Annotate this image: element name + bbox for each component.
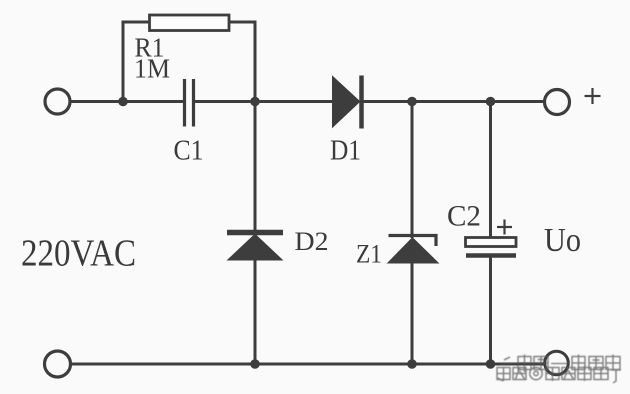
wire top rail: C1 right plate to D1 anode xyxy=(195,100,333,103)
diode D2 triangle xyxy=(229,235,281,260)
terminal output top-right xyxy=(545,90,570,115)
wire Z1 branch lower xyxy=(411,263,414,365)
plus sign C2 polarity xyxy=(497,220,512,235)
node junction bottom rail at C2 xyxy=(486,359,496,369)
diode D2 cathode bar xyxy=(227,230,283,236)
svg-text:Z1: Z1 xyxy=(356,240,382,269)
svg-text:D1: D1 xyxy=(330,136,361,167)
wire top rail: input terminal to C1 left plate xyxy=(71,100,185,103)
wire R1 loop left vertical xyxy=(122,22,125,102)
wire R1 loop top left xyxy=(122,21,152,24)
capacitor C2 negative plate xyxy=(466,253,516,258)
svg-text:C2: C2 xyxy=(447,200,481,233)
capacitor C1 right plate xyxy=(192,79,195,127)
capacitor C1 left plate xyxy=(183,79,186,127)
wire top rail: D1 cathode to output terminal xyxy=(363,100,545,103)
svg-text:1M: 1M xyxy=(134,54,170,84)
terminal input top-left xyxy=(45,89,70,114)
capacitor C2 positive plate xyxy=(466,238,517,247)
svg-text:D2: D2 xyxy=(295,227,329,256)
diode D1 triangle xyxy=(333,78,359,127)
wire D2 branch lower xyxy=(254,260,257,365)
wire Z1 branch upper xyxy=(411,102,414,239)
node junction bottom rail at Z1 xyxy=(407,359,417,369)
diode D1 cathode bar xyxy=(359,76,364,129)
zener Z1 cathode bar with bent end xyxy=(389,236,437,247)
svg-text:C1: C1 xyxy=(174,136,204,167)
resistor R1 body xyxy=(150,15,230,31)
wire C2 branch lower xyxy=(489,256,492,365)
wire R1 loop top right xyxy=(229,21,255,24)
terminal bottom-left xyxy=(45,351,71,377)
svg-text:220VAC: 220VAC xyxy=(21,233,136,275)
node junction top rail at C1 right / D2 xyxy=(250,97,260,107)
wire D2 branch upper xyxy=(254,102,257,232)
wire C2 branch upper xyxy=(489,102,492,239)
zener Z1 triangle xyxy=(389,239,437,263)
node junction top rail at Z1 xyxy=(407,97,417,107)
svg-text:Uo: Uo xyxy=(544,222,581,259)
wire bottom rail xyxy=(71,363,546,366)
plus sign output polarity xyxy=(585,88,601,104)
node junction bottom rail at D2 xyxy=(250,359,260,369)
node junction top rail at C2 xyxy=(486,97,496,107)
terminal bottom-right xyxy=(545,351,569,375)
wire R1 loop right vertical xyxy=(254,21,257,102)
node junction top rail at R1/C1 left xyxy=(118,97,128,107)
